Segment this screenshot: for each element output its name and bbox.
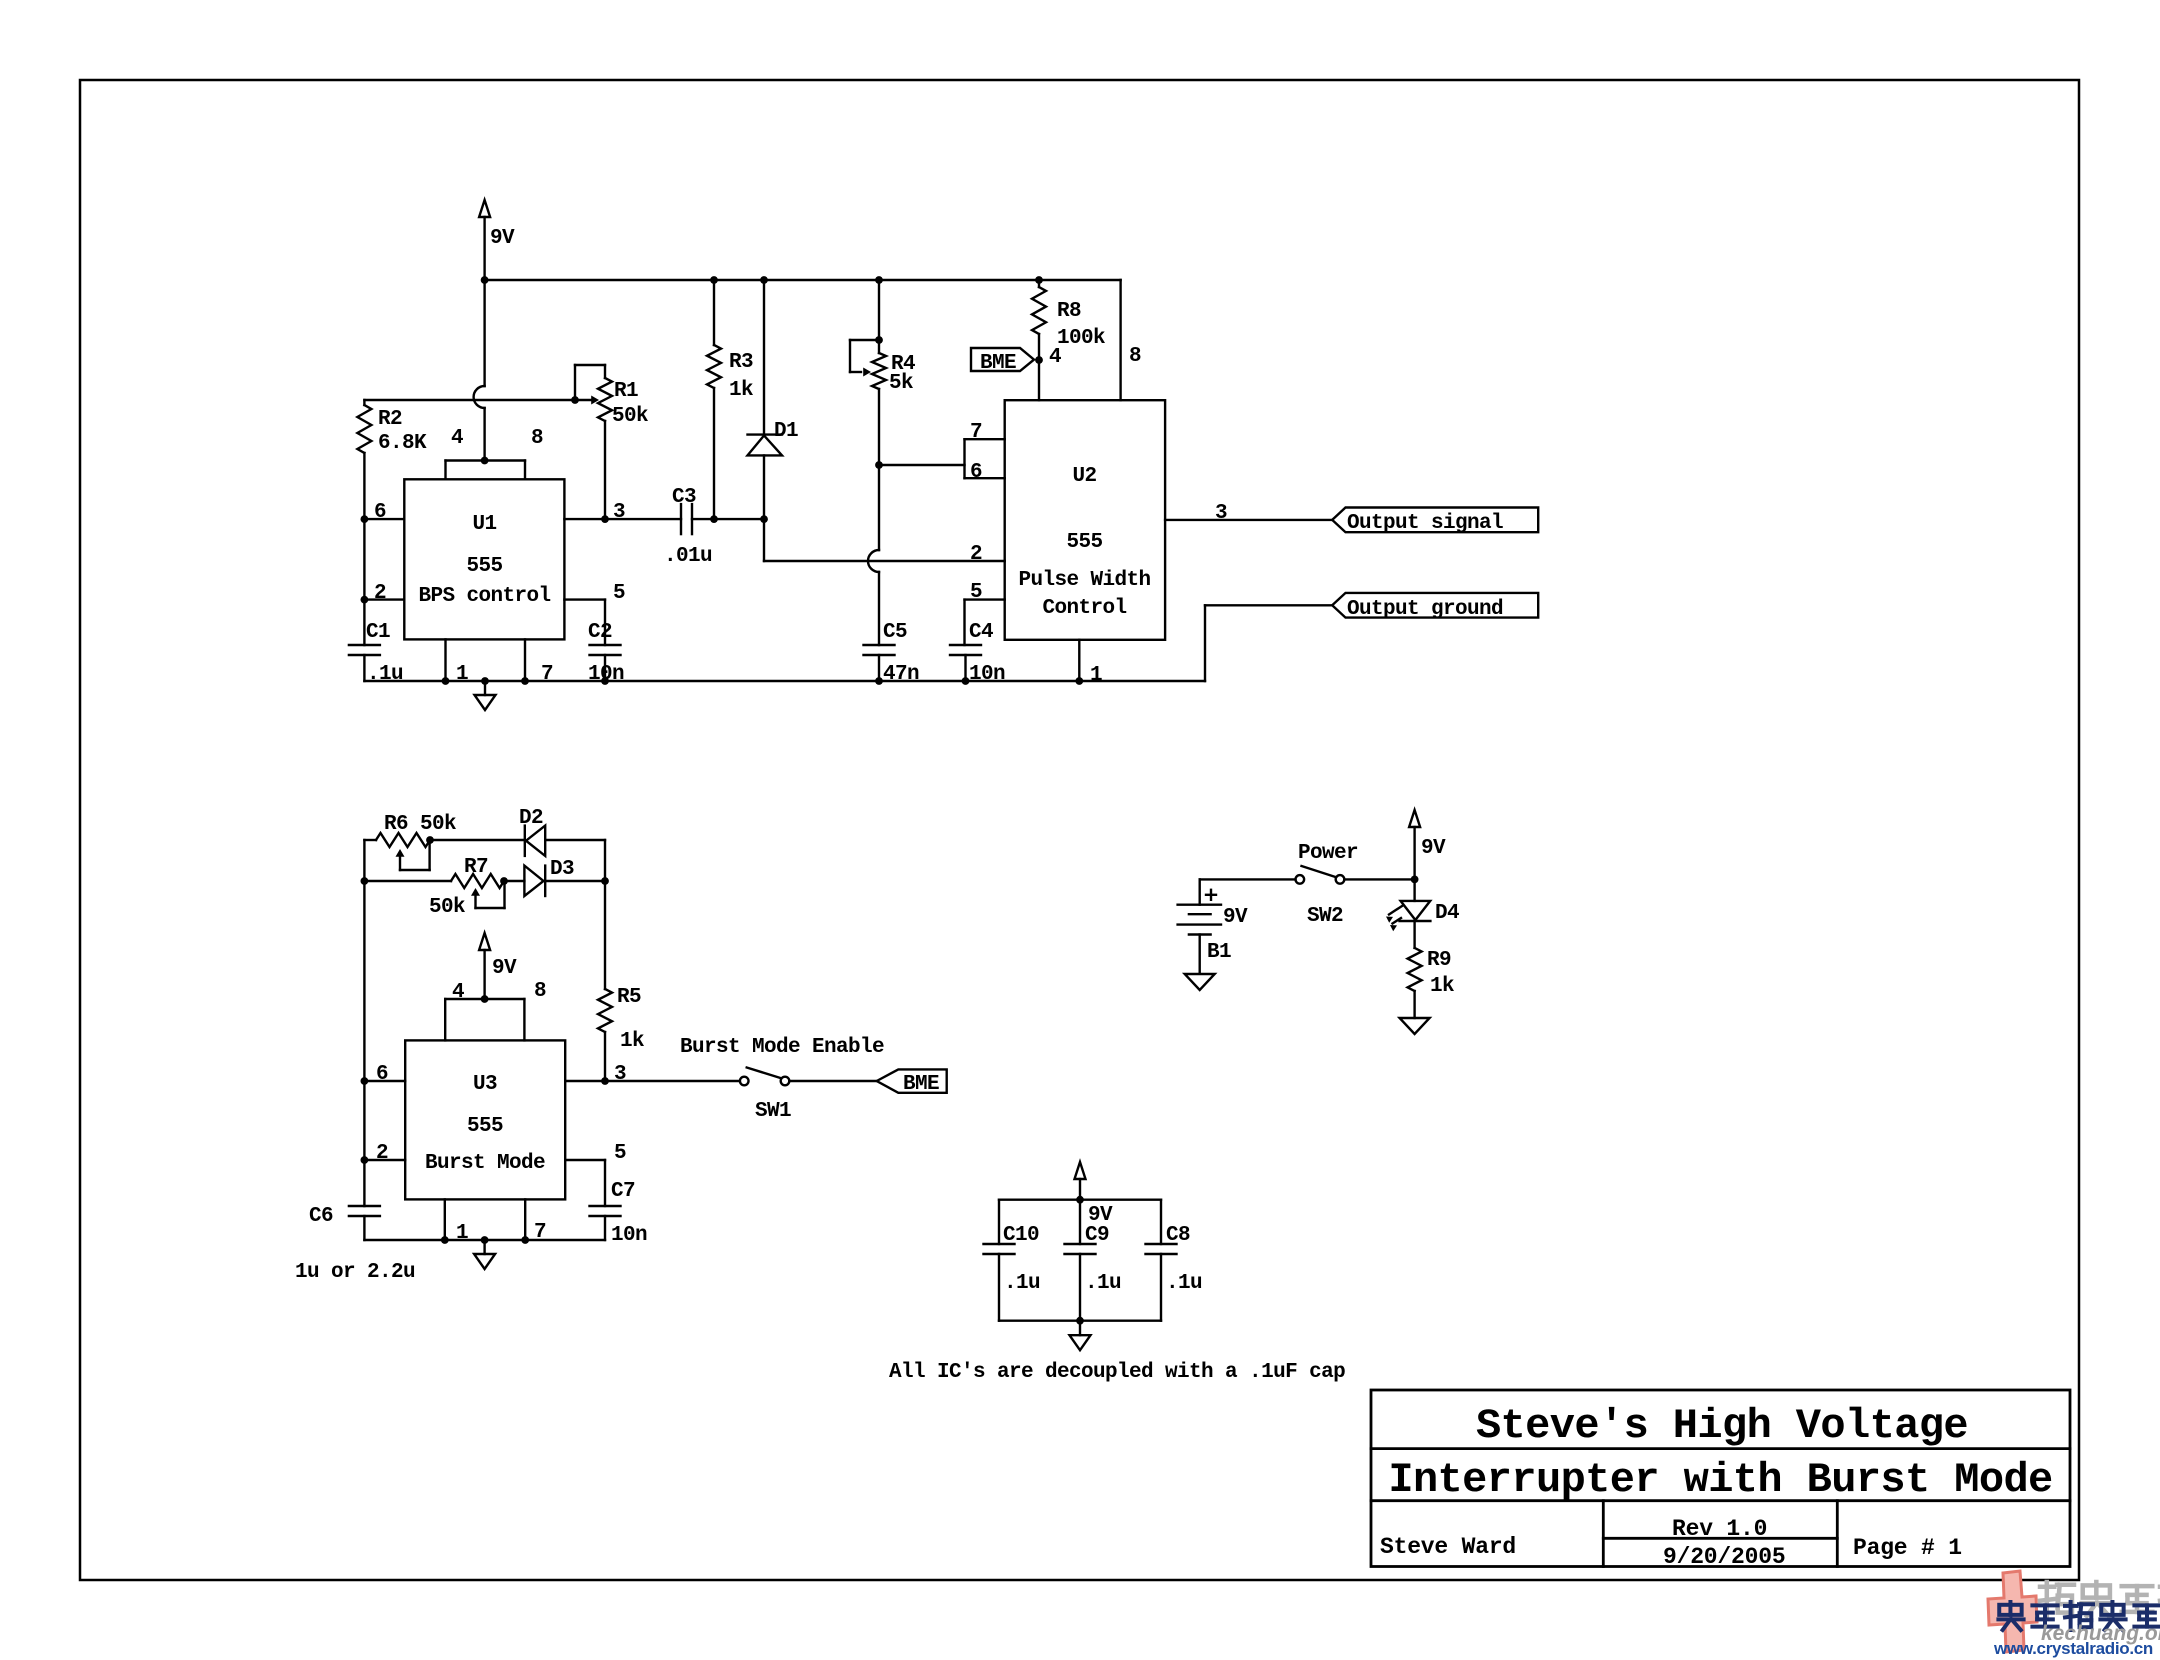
node 9V rail junction at 9V stem: [481, 276, 489, 284]
svg-text:Burst Mode: Burst Mode: [425, 1152, 545, 1175]
pin 2 stub U1: [361, 582, 405, 605]
wire U3 pins 4/8 bracket: [445, 999, 524, 1040]
pin 6 stub U1: [361, 501, 405, 524]
diode D1: [748, 280, 799, 519]
capacitor C2 10n: [588, 621, 624, 686]
svg-text:C8: C8: [1166, 1224, 1190, 1247]
node D3/R5 junction: [601, 877, 609, 885]
svg-text:7: 7: [541, 663, 553, 686]
resistor R7 50k trimpot: [429, 856, 504, 919]
svg-text:1u or 2.2u: 1u or 2.2u: [295, 1261, 415, 1284]
svg-text:Page # 1: Page # 1: [1853, 1535, 1962, 1561]
svg-text:R7: R7: [464, 856, 488, 879]
svg-text:9V: 9V: [1421, 837, 1446, 860]
capacitor C7 10n: [590, 1180, 648, 1247]
svg-text:Control: Control: [1042, 597, 1126, 620]
capacitor C8 .1u: [1146, 1200, 1203, 1321]
wire D2 to corner: [545, 840, 605, 881]
title text line 2: [1388, 1456, 2052, 1504]
svg-text:2: 2: [374, 582, 386, 605]
resistor R4 5k trimpot: [850, 280, 915, 395]
node 9V/LED junction: [1411, 876, 1419, 884]
wire SW1 to BME flag: [789, 1080, 876, 1082]
wire D3 to vertical: [545, 880, 605, 882]
svg-text:BPS control: BPS control: [418, 585, 550, 608]
node U1 pin4/8 tie: [481, 457, 489, 465]
watermark cross logo: [1988, 1571, 2037, 1652]
wire 9V stem down to U1 with hop: [474, 280, 485, 461]
svg-text:D2: D2: [519, 807, 543, 830]
op-amp U3 555 Burst Mode box: [405, 1040, 565, 1199]
svg-text:1k: 1k: [1430, 975, 1454, 998]
node pin3 R1 junction: [601, 515, 609, 523]
svg-text:Output ground: Output ground: [1347, 598, 1503, 621]
ground cap bank: [1070, 1321, 1091, 1351]
wire R7 branch: [361, 877, 452, 885]
wire U2 pin3 output: [1165, 502, 1332, 525]
svg-text:U2: U2: [1072, 465, 1096, 488]
wire left rail (U3 circuit): [363, 840, 365, 1206]
svg-text:5: 5: [614, 1142, 626, 1165]
svg-text:9V: 9V: [1223, 906, 1248, 929]
svg-text:R5: R5: [617, 986, 641, 1009]
resistor R2 6.8K: [357, 405, 427, 455]
svg-text:47n: 47n: [883, 663, 919, 686]
pin 4 label U1: [451, 427, 463, 450]
switch SW2 Power: [1296, 842, 1359, 928]
resistor R1 50k trimpot: [575, 365, 648, 428]
node C2 bottom rail: [601, 677, 609, 685]
svg-text:8: 8: [531, 427, 543, 450]
wire pin3 U1 to C3: [564, 501, 681, 524]
resistor R3 1k: [707, 280, 753, 519]
pin 1 stub U3: [441, 1199, 468, 1245]
svg-text:B1: B1: [1207, 941, 1231, 964]
op-amp U1 555 BPS control box: [404, 479, 564, 639]
svg-text:.1u: .1u: [1004, 1272, 1040, 1295]
svg-text:C6: C6: [309, 1205, 333, 1228]
wire pin4 to U2: [1038, 360, 1040, 400]
pin 5 stub U1 to C2: [564, 582, 625, 645]
svg-text:All IC's are decoupled with a: All IC's are decoupled with a .1uF cap: [889, 1361, 1345, 1384]
LED D4: [1386, 879, 1459, 948]
svg-text:Interrupter with Burst Mode: Interrupter with Burst Mode: [1388, 1456, 2052, 1504]
wire output ground: [1205, 605, 1332, 681]
power 9V arrow (battery output): [1409, 810, 1446, 879]
pin 7 stub U1: [521, 639, 553, 686]
svg-text:Output signal: Output signal: [1347, 512, 1503, 535]
svg-text:5: 5: [970, 581, 982, 604]
svg-text:9V: 9V: [492, 957, 517, 980]
node R4 top rail: [875, 276, 883, 284]
svg-text:.01u: .01u: [664, 545, 712, 568]
pin 2 stub U3: [361, 1142, 406, 1165]
pin 7 stub U3: [521, 1199, 546, 1244]
svg-text:5k: 5k: [889, 372, 913, 395]
watermark kechuang.org: [2041, 1622, 2160, 1645]
title block: [1371, 1390, 2070, 1567]
op-amp U2 555 Pulse Width Control box: [1005, 400, 1165, 640]
node R7 right junction: [500, 877, 508, 885]
pin 8 label U1: [531, 427, 543, 450]
ground B1: [1185, 974, 1215, 990]
node pin3/R5 junction: [601, 1077, 609, 1085]
switch SW1: [740, 1068, 791, 1124]
svg-text:10n: 10n: [969, 663, 1005, 686]
pin 6 stub U2 and bracket: [965, 439, 1005, 484]
node R4/C5/pin6 junction: [875, 461, 883, 469]
wire cap bank bottom rail: [999, 1317, 1161, 1325]
svg-text:7: 7: [970, 421, 982, 444]
pin 1 stub U1: [442, 639, 468, 686]
svg-text:D4: D4: [1435, 902, 1459, 925]
svg-text:Pulse Width: Pulse Width: [1018, 569, 1150, 592]
svg-text:1: 1: [456, 1222, 468, 1245]
pin 6 stub U3: [361, 1063, 406, 1086]
diode D3: [524, 858, 574, 896]
svg-text:50k: 50k: [612, 405, 648, 428]
svg-text:3: 3: [613, 501, 625, 524]
node BME / pin4 junction: [1035, 346, 1061, 369]
svg-text:C10: C10: [1003, 1224, 1039, 1247]
svg-text:D1: D1: [774, 420, 798, 443]
pin 2 label U2: [970, 543, 982, 566]
svg-text:1k: 1k: [729, 379, 753, 402]
resistor R5 1k: [598, 881, 644, 1081]
svg-text:8: 8: [1129, 345, 1141, 368]
pin 5 stub U3 to C7: [565, 1142, 626, 1206]
svg-text:R6 50k: R6 50k: [384, 813, 456, 836]
svg-text:BME: BME: [980, 352, 1016, 375]
title page: [1853, 1535, 1962, 1561]
wire R2 top to R1 wiper: [364, 400, 575, 405]
R7 wiper: [471, 881, 505, 908]
svg-text:3: 3: [614, 1063, 626, 1086]
svg-text:Rev 1.0: Rev 1.0: [1672, 1516, 1767, 1542]
svg-text:Burst Mode Enable: Burst Mode Enable: [680, 1036, 884, 1059]
wire left rail R2 to pin6 to pin2 to C1: [363, 453, 365, 645]
wire junction to U2 pin6/7 bracket: [879, 464, 965, 466]
svg-text:R1: R1: [614, 380, 638, 403]
capacitor C9 .1u: [1065, 1200, 1122, 1321]
node R3 bottom junction: [710, 515, 718, 523]
title date: [1663, 1544, 1785, 1570]
power 9V arrow (top left supply): [479, 200, 515, 280]
svg-text:555: 555: [466, 555, 502, 578]
svg-text:R9: R9: [1427, 949, 1451, 972]
wire pin3 U3 to SW1: [565, 1063, 740, 1086]
svg-text:9/20/2005: 9/20/2005: [1663, 1544, 1785, 1570]
svg-text:R3: R3: [729, 351, 753, 374]
svg-text:Steve Ward: Steve Ward: [1380, 1534, 1516, 1560]
svg-text:C1: C1: [366, 621, 390, 644]
node BME flag (to U2 pin 4): [971, 348, 1034, 375]
svg-text:SW1: SW1: [755, 1100, 791, 1123]
svg-text:U1: U1: [472, 513, 496, 536]
svg-text:3: 3: [1215, 502, 1227, 525]
svg-text:C2: C2: [588, 621, 612, 644]
node Output ground connector: [1332, 593, 1538, 621]
node R8 top rail: [1035, 276, 1043, 284]
svg-text:Steve's High Voltage: Steve's High Voltage: [1476, 1402, 1968, 1450]
pin 7 stub U2: [965, 421, 1005, 444]
svg-text:.1u: .1u: [367, 663, 403, 686]
svg-text:100k: 100k: [1057, 327, 1105, 350]
svg-text:U3: U3: [473, 1073, 497, 1096]
R6 wiper: [396, 840, 430, 870]
watermark navy text crystalradio: [1998, 1602, 2159, 1630]
svg-text:6: 6: [376, 1063, 388, 1086]
note decoupling: [889, 1361, 1345, 1384]
svg-text:C7: C7: [611, 1180, 635, 1203]
svg-text:8: 8: [534, 980, 546, 1003]
svg-text:C9: C9: [1085, 1224, 1109, 1247]
wire rail corner to U2 pin 8: [1121, 280, 1141, 400]
diode D2: [519, 807, 545, 856]
svg-text:555: 555: [467, 1115, 503, 1138]
svg-text:6: 6: [970, 461, 982, 484]
node R3 top rail: [710, 276, 718, 284]
svg-text:C3: C3: [672, 486, 696, 509]
svg-text:R8: R8: [1057, 300, 1081, 323]
svg-text:C4: C4: [969, 621, 993, 644]
wire bottom rail U3: [364, 1239, 605, 1241]
svg-text:C5: C5: [883, 621, 907, 644]
svg-text:4: 4: [1049, 346, 1061, 369]
capacitor C6 1u or 2.2u: [295, 1205, 415, 1284]
svg-text:6: 6: [374, 501, 386, 524]
node D1 junction: [760, 515, 768, 523]
wire cap bank top rail: [999, 1196, 1161, 1204]
watermark gray text kechuang forum: [2040, 1582, 2160, 1616]
svg-text:BME: BME: [903, 1073, 939, 1096]
battery B1 9V: [1178, 879, 1248, 973]
wire R1 bottom to pin3 node: [604, 421, 606, 519]
capacitor C4 10n: [950, 621, 1005, 686]
svg-text:www.crystalradio.cn: www.crystalradio.cn: [1993, 1639, 2153, 1658]
node R6 right junction: [426, 836, 434, 844]
label Burst Mode Enable: [680, 1036, 884, 1059]
svg-text:R2: R2: [378, 408, 402, 431]
svg-text:.1u: .1u: [1085, 1272, 1121, 1295]
capacitor C3 .01u: [664, 486, 712, 568]
resistor R9 1k: [1408, 948, 1454, 1018]
wire D1 down to U2 pin2: [764, 519, 1005, 561]
ground U1: [475, 677, 496, 710]
svg-text:1k: 1k: [620, 1030, 644, 1053]
node D1 top rail: [760, 276, 768, 284]
wire top 9V rail: [485, 279, 1121, 281]
wire R4 bottom to junction and C5 with hop: [868, 389, 879, 645]
pin 1 stub U2: [1075, 640, 1102, 687]
pin 4 label U3: [452, 981, 464, 1004]
svg-text:5: 5: [613, 582, 625, 605]
wire SW2 to 9V node: [1344, 878, 1414, 880]
svg-text:SW2: SW2: [1307, 905, 1343, 928]
watermark www.crystalradio.cn: [1993, 1639, 2153, 1658]
svg-text:2: 2: [970, 543, 982, 566]
pin 8 label U3: [534, 980, 546, 1003]
ground R9: [1400, 1018, 1430, 1034]
node R1 wiper junction: [571, 396, 579, 404]
title author: [1380, 1534, 1516, 1560]
svg-text:555: 555: [1066, 531, 1102, 554]
resistor R6 50k trimpot: [364, 813, 456, 847]
svg-text:.1u: .1u: [1166, 1272, 1202, 1295]
wire bottom ground rail (top circuit): [364, 680, 1205, 682]
wire battery to SW2: [1200, 878, 1296, 880]
wire U1 pins 4/8 bracket: [446, 461, 526, 480]
title rev: [1672, 1516, 1767, 1542]
capacitor C1 .1u: [349, 621, 403, 686]
pin 5 stub U2 to C4: [965, 581, 1005, 645]
ground U3: [474, 1236, 495, 1269]
svg-text:2: 2: [376, 1142, 388, 1165]
wire R6 to D2: [430, 839, 525, 841]
svg-text:4: 4: [452, 981, 464, 1004]
svg-text:9V: 9V: [490, 227, 515, 250]
wire R7 to D3: [504, 880, 524, 882]
svg-text:4: 4: [451, 427, 463, 450]
svg-text:6.8K: 6.8K: [378, 432, 427, 455]
svg-text:D3: D3: [550, 858, 574, 881]
node Output signal connector: [1332, 508, 1538, 536]
node BME flag (from SW1): [877, 1069, 947, 1096]
svg-text:10n: 10n: [611, 1224, 647, 1247]
svg-text:1: 1: [456, 663, 468, 686]
svg-text:1: 1: [1090, 664, 1102, 687]
capacitor C10 .1u: [984, 1200, 1041, 1321]
node U3 pin4/8 tie: [481, 995, 489, 1003]
svg-text:50k: 50k: [429, 896, 465, 919]
capacitor C5 47n: [864, 621, 920, 686]
svg-text:Power: Power: [1298, 842, 1358, 865]
wire C3 to R3/D1 nodes: [692, 518, 764, 520]
power 9V arrow (U3 supply): [479, 933, 517, 999]
power 9V arrow (decoupling bank): [1075, 1162, 1114, 1227]
title text line 1: [1476, 1402, 1968, 1450]
resistor R8 100k: [1032, 280, 1105, 360]
